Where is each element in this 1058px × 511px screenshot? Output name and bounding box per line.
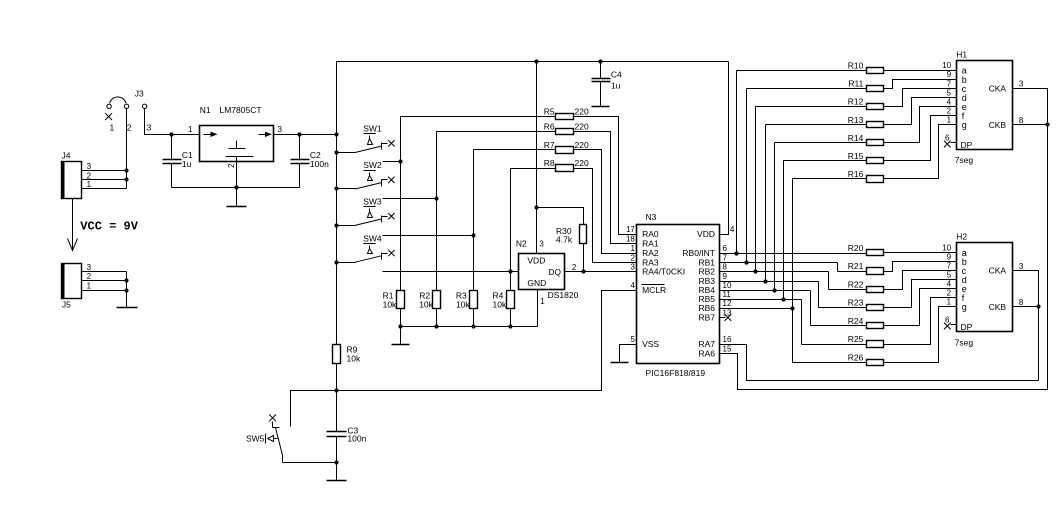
svg-text:6: 6 bbox=[945, 316, 950, 325]
svg-text:9: 9 bbox=[947, 70, 952, 79]
wire N3 RB2 pin 8 bbox=[720, 271, 829, 273]
wire R9 bottom bbox=[336, 364, 338, 391]
svg-text:1: 1 bbox=[188, 125, 193, 134]
wire R30 to DQ bbox=[583, 244, 585, 272]
junction bbox=[471, 233, 475, 237]
svg-text:100n: 100n bbox=[347, 434, 366, 444]
wire switch node vertical bbox=[473, 150, 475, 291]
junction bbox=[598, 59, 602, 63]
svg-text:1u: 1u bbox=[182, 159, 192, 169]
capacitor C1 bbox=[163, 135, 194, 188]
resistor R6 220 bbox=[544, 121, 589, 134]
svg-text:2: 2 bbox=[947, 289, 952, 298]
svg-text:3: 3 bbox=[87, 162, 92, 171]
wire R26 to H2 bbox=[884, 307, 957, 363]
ground bbox=[400, 327, 402, 345]
resistor R22 bbox=[848, 279, 884, 292]
svg-text:8: 8 bbox=[1019, 298, 1024, 307]
svg-text:7seg: 7seg bbox=[955, 337, 974, 347]
svg-text:J5: J5 bbox=[62, 299, 71, 309]
display H2 7seg bbox=[942, 232, 1024, 348]
svg-text:CKB: CKB bbox=[989, 302, 1007, 312]
wire J3 pin2 to J4 pins bbox=[126, 109, 128, 189]
junction bbox=[334, 132, 338, 136]
wire R7 to N3 bbox=[574, 150, 637, 254]
svg-text:VCC = 9V: VCC = 9V bbox=[80, 220, 138, 234]
svg-text:R23: R23 bbox=[848, 298, 864, 308]
resistor R20 bbox=[848, 243, 884, 256]
wire 5V top bbox=[337, 61, 729, 63]
svg-text:7: 7 bbox=[947, 79, 952, 88]
svg-text:J3: J3 bbox=[135, 89, 144, 99]
wire R15 to H1 bbox=[884, 116, 957, 161]
wire N1 output bbox=[274, 134, 337, 136]
ground rail under R1-R4 bbox=[401, 326, 538, 328]
resistor R15 bbox=[848, 151, 884, 164]
junction bbox=[334, 460, 338, 464]
svg-text:5: 5 bbox=[947, 88, 952, 97]
temp sensor N2 DS1820 bbox=[516, 238, 579, 306]
svg-text:3: 3 bbox=[630, 263, 635, 272]
svg-text:2: 2 bbox=[572, 263, 577, 272]
capacitor C3 bbox=[327, 391, 367, 463]
junction bbox=[334, 388, 338, 392]
junction bbox=[471, 324, 475, 328]
junction bbox=[334, 260, 338, 264]
svg-text:H1: H1 bbox=[956, 49, 967, 59]
junction bbox=[753, 269, 757, 273]
svg-text:10k: 10k bbox=[383, 300, 397, 310]
regulator N1 LM7805CT bbox=[188, 105, 283, 162]
svg-text:100n: 100n bbox=[310, 159, 329, 169]
wire J4 pin1 bbox=[82, 188, 127, 190]
svg-text:4: 4 bbox=[630, 281, 635, 290]
connector J3 bbox=[105, 89, 151, 133]
wire SW1 output bbox=[383, 161, 401, 163]
wire R10 to H1 bbox=[884, 70, 957, 72]
svg-text:10k: 10k bbox=[493, 300, 507, 310]
svg-text:2: 2 bbox=[227, 163, 236, 168]
junction bbox=[124, 177, 128, 181]
svg-text:3: 3 bbox=[87, 263, 92, 272]
wire VSS to ground bbox=[620, 345, 637, 363]
switch SW5 bbox=[246, 415, 283, 463]
svg-text:VDD: VDD bbox=[697, 229, 715, 239]
wire stub near SW5 bbox=[291, 391, 337, 427]
svg-text:H2: H2 bbox=[956, 232, 967, 242]
wire H2 CKA/CKB common bbox=[1013, 271, 1039, 381]
wire riser to R15 bbox=[783, 161, 785, 300]
svg-text:3: 3 bbox=[147, 123, 152, 133]
svg-text:1: 1 bbox=[947, 116, 952, 125]
wire R6 to N3 bbox=[574, 132, 637, 244]
svg-text:1: 1 bbox=[947, 298, 952, 307]
wire R25 to H2 bbox=[884, 298, 957, 345]
wire R14 to H1 bbox=[884, 107, 957, 143]
svg-text:CKB: CKB bbox=[989, 120, 1007, 130]
svg-text:R10: R10 bbox=[848, 61, 864, 71]
svg-text:11: 11 bbox=[723, 290, 732, 299]
svg-text:R22: R22 bbox=[848, 279, 864, 289]
resistor R16 bbox=[848, 169, 884, 182]
svg-text:3: 3 bbox=[1019, 80, 1024, 89]
wire switch node vertical bbox=[510, 169, 512, 291]
wire N3 RB4 pin 10 bbox=[720, 290, 811, 292]
junction bbox=[734, 251, 738, 255]
svg-text:N2: N2 bbox=[516, 238, 527, 248]
svg-text:1: 1 bbox=[87, 282, 92, 291]
wire N3 RA7 pin16 to H2 bbox=[720, 345, 1039, 381]
svg-text:2: 2 bbox=[127, 123, 132, 133]
svg-text:1: 1 bbox=[87, 180, 92, 189]
wire R20 to H2 bbox=[884, 252, 957, 254]
svg-text:J4: J4 bbox=[62, 151, 71, 161]
wire riser to R12 bbox=[755, 107, 757, 272]
resistor R12 bbox=[848, 97, 884, 110]
wire SW5 to C3 node bbox=[283, 462, 337, 464]
wire R23 to H2 bbox=[884, 280, 957, 308]
junction bbox=[1045, 122, 1049, 126]
svg-text:CKA: CKA bbox=[989, 84, 1007, 94]
junction bbox=[581, 269, 585, 273]
svg-text:RA4/T0CKI: RA4/T0CKI bbox=[642, 267, 685, 277]
resistor R26 bbox=[848, 352, 884, 365]
wire H1 CKA/CKB common bbox=[1013, 89, 1048, 390]
svg-text:5: 5 bbox=[630, 335, 635, 344]
svg-text:N3: N3 bbox=[646, 212, 657, 222]
resistor R9 bbox=[333, 344, 361, 363]
display H1 7seg bbox=[942, 49, 1024, 165]
wire SW2 output bbox=[383, 198, 437, 200]
resistor R4 bbox=[493, 291, 515, 310]
wire VDD drop to N3 bbox=[720, 62, 729, 235]
connector J5 bbox=[61, 263, 91, 310]
svg-text:SW5: SW5 bbox=[246, 434, 265, 444]
unconnected pin RB7 bbox=[720, 314, 732, 321]
wire switch node vertical bbox=[436, 132, 438, 291]
svg-text:SW1: SW1 bbox=[363, 124, 382, 134]
svg-text:1: 1 bbox=[110, 123, 115, 133]
wire H1 CKB bbox=[1013, 124, 1048, 126]
junction bbox=[781, 297, 785, 301]
junction bbox=[398, 159, 402, 163]
wire R2 bottom bbox=[436, 309, 438, 327]
svg-text:R12: R12 bbox=[848, 97, 864, 107]
svg-text:220: 220 bbox=[575, 158, 589, 168]
svg-text:6: 6 bbox=[945, 134, 950, 143]
svg-text:SW2: SW2 bbox=[363, 160, 382, 170]
svg-text:GND: GND bbox=[527, 278, 546, 288]
junction bbox=[434, 196, 438, 200]
svg-text:RB6: RB6 bbox=[698, 303, 715, 313]
svg-text:g: g bbox=[962, 120, 967, 130]
svg-text:8: 8 bbox=[723, 263, 728, 272]
junction bbox=[744, 260, 748, 264]
svg-text:CKA: CKA bbox=[989, 266, 1007, 276]
capacitor C2 bbox=[291, 135, 330, 188]
svg-text:5: 5 bbox=[947, 271, 952, 280]
resistor R3 bbox=[456, 291, 478, 310]
connector J4 bbox=[61, 151, 91, 199]
unconnected pin DP of H2 bbox=[944, 323, 957, 330]
resistor R10 bbox=[848, 61, 884, 74]
svg-text:DS1820: DS1820 bbox=[548, 290, 579, 300]
svg-text:2: 2 bbox=[87, 272, 92, 281]
wire MCLR bbox=[337, 291, 637, 391]
wire J4 pin3 bbox=[82, 170, 127, 172]
svg-text:PIC16F818/819: PIC16F818/819 bbox=[646, 368, 706, 378]
microcontroller N3 PIC16F818/819 bbox=[626, 212, 735, 378]
wire N3 RB0 pin 6 bbox=[720, 253, 867, 255]
svg-text:R26: R26 bbox=[848, 352, 864, 362]
junction bbox=[508, 324, 512, 328]
wire SW4 node to DS1820 edge bbox=[511, 271, 519, 273]
wire R8 left bbox=[511, 168, 556, 170]
svg-text:VSS: VSS bbox=[642, 339, 659, 349]
junction bbox=[772, 288, 776, 292]
svg-text:R6: R6 bbox=[544, 121, 555, 131]
pin 2 of N1 to ground rail bbox=[236, 157, 238, 188]
wire R16 to H1 bbox=[884, 125, 957, 179]
ground bbox=[336, 463, 338, 481]
wire J5 to ground bbox=[126, 272, 128, 308]
junction bbox=[169, 132, 173, 136]
wire R22 to H2 bbox=[884, 271, 957, 290]
wire SW4 output bbox=[383, 271, 511, 273]
svg-text:1: 1 bbox=[540, 297, 545, 306]
wire switch node vertical bbox=[400, 117, 402, 291]
wire riser to R11 bbox=[746, 89, 748, 263]
junction bbox=[508, 269, 512, 273]
resistor R25 bbox=[848, 334, 884, 347]
junction bbox=[334, 223, 338, 227]
svg-text:8: 8 bbox=[1019, 116, 1024, 125]
svg-text:RA6: RA6 bbox=[698, 349, 715, 359]
junction bbox=[124, 288, 128, 292]
resistor R8 220 bbox=[544, 158, 589, 172]
svg-text:MCLR: MCLR bbox=[642, 285, 666, 295]
ground bbox=[236, 188, 238, 207]
svg-text:R24: R24 bbox=[848, 316, 864, 326]
svg-text:7seg: 7seg bbox=[955, 155, 974, 165]
resistor R21 bbox=[848, 261, 884, 274]
wire R7 left bbox=[474, 149, 556, 151]
wire J5 pin3 bbox=[82, 271, 127, 273]
svg-text:15: 15 bbox=[723, 345, 732, 354]
svg-text:DP: DP bbox=[961, 322, 973, 332]
svg-text:DQ: DQ bbox=[548, 267, 561, 277]
svg-text:R15: R15 bbox=[848, 151, 864, 161]
wire SW3 output bbox=[383, 235, 474, 237]
wire 5V branch to N2 VDD bbox=[536, 62, 538, 254]
wire riser to R13 bbox=[765, 125, 767, 282]
wire N3 RB5 pin 11 bbox=[720, 299, 802, 301]
svg-text:12: 12 bbox=[723, 299, 732, 308]
resistor R30 bbox=[556, 225, 587, 245]
svg-text:10: 10 bbox=[942, 244, 951, 253]
junction bbox=[334, 150, 338, 154]
svg-text:LM7805CT: LM7805CT bbox=[220, 105, 262, 115]
svg-text:3: 3 bbox=[1019, 262, 1024, 271]
svg-text:4.7k: 4.7k bbox=[556, 235, 573, 245]
svg-text:R8: R8 bbox=[544, 158, 555, 168]
svg-text:VDD: VDD bbox=[527, 256, 545, 266]
wire R3 bottom bbox=[473, 309, 475, 327]
svg-text:220: 220 bbox=[575, 122, 589, 132]
svg-text:R13: R13 bbox=[848, 115, 864, 125]
wire R12 to H1 bbox=[884, 89, 957, 107]
junction bbox=[534, 205, 538, 209]
svg-text:3: 3 bbox=[278, 125, 283, 134]
svg-text:3: 3 bbox=[539, 239, 544, 248]
wire R21 to H2 bbox=[884, 262, 957, 272]
wire N3 RB3 pin 9 bbox=[720, 281, 819, 283]
svg-text:R25: R25 bbox=[848, 334, 864, 344]
wire J5 pin2 bbox=[82, 280, 127, 282]
wire R11 to H1 bbox=[884, 80, 957, 89]
ground bbox=[611, 362, 629, 364]
svg-text:g: g bbox=[962, 302, 967, 312]
svg-text:4: 4 bbox=[730, 225, 735, 234]
wire R6 left bbox=[437, 131, 556, 133]
svg-text:4: 4 bbox=[947, 280, 952, 289]
svg-text:R5: R5 bbox=[544, 106, 555, 116]
switch SW3 bbox=[337, 197, 395, 226]
wire R1 bottom bbox=[400, 309, 402, 327]
svg-text:R7: R7 bbox=[544, 140, 555, 150]
wire riser to R14 bbox=[774, 143, 776, 291]
wire H2 CKB bbox=[1013, 306, 1039, 308]
resistor R13 bbox=[848, 115, 884, 128]
svg-text:17: 17 bbox=[626, 225, 635, 234]
svg-text:1: 1 bbox=[630, 244, 635, 253]
ground bbox=[592, 106, 610, 108]
svg-text:7: 7 bbox=[723, 253, 728, 262]
svg-text:SW4: SW4 bbox=[363, 233, 382, 243]
svg-text:4: 4 bbox=[947, 98, 952, 107]
svg-text:R16: R16 bbox=[848, 169, 864, 179]
junction bbox=[124, 278, 128, 282]
svg-text:1u: 1u bbox=[611, 80, 621, 90]
resistor R7 220 bbox=[544, 140, 589, 154]
wire riser to R16 bbox=[792, 179, 794, 309]
wire J4 pin2 bbox=[82, 179, 127, 181]
svg-text:RB7: RB7 bbox=[698, 313, 715, 323]
junction bbox=[334, 186, 338, 190]
wire branch to R30 bbox=[537, 208, 584, 225]
wire R5 left bbox=[401, 116, 556, 118]
resistor R14 bbox=[848, 133, 884, 146]
junction bbox=[124, 168, 128, 172]
wire N3 RB6 pin 12 bbox=[720, 308, 793, 310]
wire 5V bus vertical bbox=[336, 62, 338, 345]
junction bbox=[1036, 304, 1040, 308]
junction bbox=[763, 279, 767, 283]
wire R24 to H2 bbox=[884, 289, 957, 326]
svg-text:10: 10 bbox=[942, 61, 951, 70]
svg-text:10k: 10k bbox=[456, 300, 470, 310]
wire N3 RA6 pin15 to H1 bbox=[720, 354, 1048, 390]
resistor R23 bbox=[848, 298, 884, 311]
resistor R11 bbox=[848, 79, 883, 92]
svg-text:R20: R20 bbox=[848, 243, 864, 253]
svg-text:7: 7 bbox=[947, 262, 952, 271]
wire DS1820 GND pin1 bbox=[537, 290, 539, 327]
svg-text:18: 18 bbox=[626, 235, 635, 244]
svg-text:R14: R14 bbox=[848, 133, 864, 143]
svg-text:220: 220 bbox=[575, 140, 589, 150]
ground bbox=[117, 307, 138, 309]
svg-text:RA1: RA1 bbox=[642, 239, 659, 249]
resistor R24 bbox=[848, 316, 884, 329]
switch SW2 bbox=[337, 160, 395, 189]
junction bbox=[534, 59, 538, 63]
svg-text:RA7: RA7 bbox=[698, 339, 715, 349]
VCC supply arrow bbox=[68, 199, 78, 251]
resistor R1 bbox=[383, 291, 405, 310]
svg-text:DP: DP bbox=[961, 140, 973, 150]
switch SW4 bbox=[337, 233, 395, 262]
junction bbox=[398, 324, 402, 328]
svg-text:220: 220 bbox=[575, 107, 589, 117]
junction bbox=[234, 185, 238, 189]
wire R4 bottom bbox=[510, 309, 512, 327]
wire R5 to N3 bbox=[574, 117, 637, 235]
wire RB6 riser to R26 bbox=[792, 309, 794, 363]
resistor R5 220 bbox=[544, 106, 589, 119]
svg-text:SW3: SW3 bbox=[363, 197, 382, 207]
svg-text:9: 9 bbox=[723, 272, 728, 281]
wire R13 to H1 bbox=[884, 98, 957, 125]
wire R8 to N3 bbox=[574, 169, 637, 263]
junction bbox=[790, 306, 794, 310]
svg-text:16: 16 bbox=[723, 335, 732, 344]
wire J5 pin1 bbox=[82, 290, 127, 292]
svg-text:2: 2 bbox=[630, 253, 635, 262]
svg-text:10k: 10k bbox=[347, 353, 361, 363]
svg-text:R21: R21 bbox=[848, 261, 864, 271]
wire N3 RB1 pin 7 bbox=[720, 262, 838, 264]
resistor R2 bbox=[419, 291, 440, 310]
svg-text:10k: 10k bbox=[419, 300, 433, 310]
svg-text:9: 9 bbox=[947, 253, 952, 262]
svg-text:6: 6 bbox=[723, 244, 728, 253]
svg-text:C4: C4 bbox=[611, 70, 622, 80]
svg-text:10: 10 bbox=[723, 281, 732, 290]
wire DQ to N3 RA4 bbox=[565, 271, 637, 273]
switch SW1 bbox=[337, 124, 395, 153]
capacitor C4 bbox=[592, 62, 623, 107]
junction bbox=[434, 324, 438, 328]
ground rail under N1 bbox=[172, 187, 300, 189]
wire riser to R10 bbox=[736, 71, 738, 254]
wire J3 pin3 to regulator input bbox=[145, 109, 200, 135]
svg-text:2: 2 bbox=[947, 107, 952, 116]
svg-text:R11: R11 bbox=[848, 79, 863, 89]
unconnected pin DP of H1 bbox=[944, 141, 957, 148]
junction bbox=[297, 132, 301, 136]
svg-text:N1: N1 bbox=[200, 105, 211, 115]
